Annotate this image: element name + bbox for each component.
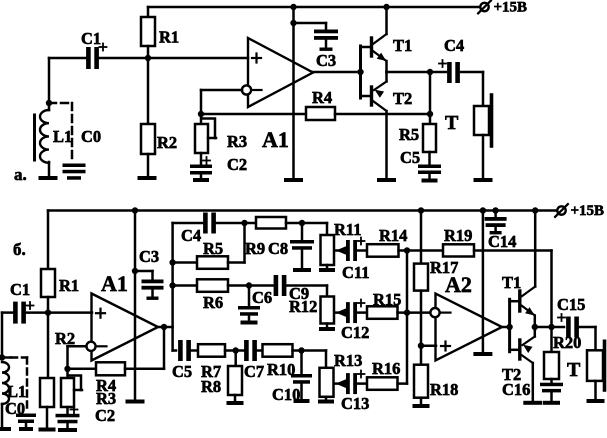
svg-text:C3: C3 [139, 247, 159, 266]
svg-text:R5: R5 [399, 125, 419, 144]
svg-text:R13: R13 [334, 351, 362, 370]
svg-text:C7: C7 [244, 362, 264, 381]
svg-text:L1: L1 [53, 127, 72, 146]
svg-text:A2: A2 [445, 272, 472, 297]
svg-text:T2: T2 [393, 89, 412, 108]
svg-text:C11: C11 [342, 263, 370, 282]
svg-text:C15: C15 [557, 295, 585, 314]
svg-text:C4: C4 [444, 36, 464, 55]
svg-text:T: T [445, 112, 459, 134]
svg-text:T1: T1 [393, 36, 412, 55]
svg-text:C1: C1 [81, 29, 101, 48]
svg-text:C8: C8 [268, 239, 288, 258]
svg-text:C5: C5 [172, 362, 192, 381]
svg-text:C2: C2 [227, 155, 247, 174]
svg-text:C1: C1 [10, 280, 30, 299]
svg-text:R18: R18 [430, 380, 458, 399]
svg-text:T: T [567, 359, 581, 381]
svg-text:R9: R9 [245, 239, 265, 258]
svg-text:C4: C4 [181, 226, 201, 245]
svg-text:R8: R8 [201, 377, 221, 396]
svg-text:A1: A1 [262, 127, 289, 152]
svg-text:C13: C13 [341, 394, 369, 413]
svg-text:C0: C0 [81, 127, 101, 146]
svg-text:T1: T1 [502, 273, 521, 292]
svg-text:C16: C16 [502, 380, 530, 399]
svg-text:C10: C10 [272, 385, 300, 404]
svg-text:а.: а. [14, 165, 27, 184]
svg-text:C5: C5 [400, 148, 420, 167]
svg-text:+15B: +15B [494, 0, 528, 16]
svg-text:R20: R20 [553, 333, 581, 352]
svg-text:R1: R1 [59, 276, 79, 295]
svg-text:A1: A1 [101, 271, 128, 296]
svg-text:C2: C2 [95, 406, 115, 425]
svg-text:R3: R3 [227, 132, 247, 151]
svg-text:R14: R14 [379, 226, 407, 245]
svg-text:C6: C6 [252, 288, 272, 307]
svg-text:+15B: +15B [571, 203, 605, 219]
svg-text:б.: б. [13, 240, 26, 259]
svg-text:R6: R6 [203, 293, 223, 312]
svg-text:R16: R16 [372, 359, 400, 378]
svg-text:C12: C12 [341, 323, 369, 342]
svg-text:R15: R15 [373, 290, 401, 309]
svg-text:R11: R11 [334, 220, 362, 239]
svg-text:R5: R5 [203, 239, 223, 258]
svg-text:C3: C3 [316, 51, 336, 70]
svg-text:C14: C14 [488, 232, 516, 251]
svg-text:R12: R12 [289, 297, 317, 316]
svg-text:R19: R19 [444, 226, 472, 245]
svg-text:R1: R1 [159, 28, 179, 47]
svg-text:R2: R2 [157, 133, 177, 152]
svg-text:R4: R4 [312, 88, 332, 107]
